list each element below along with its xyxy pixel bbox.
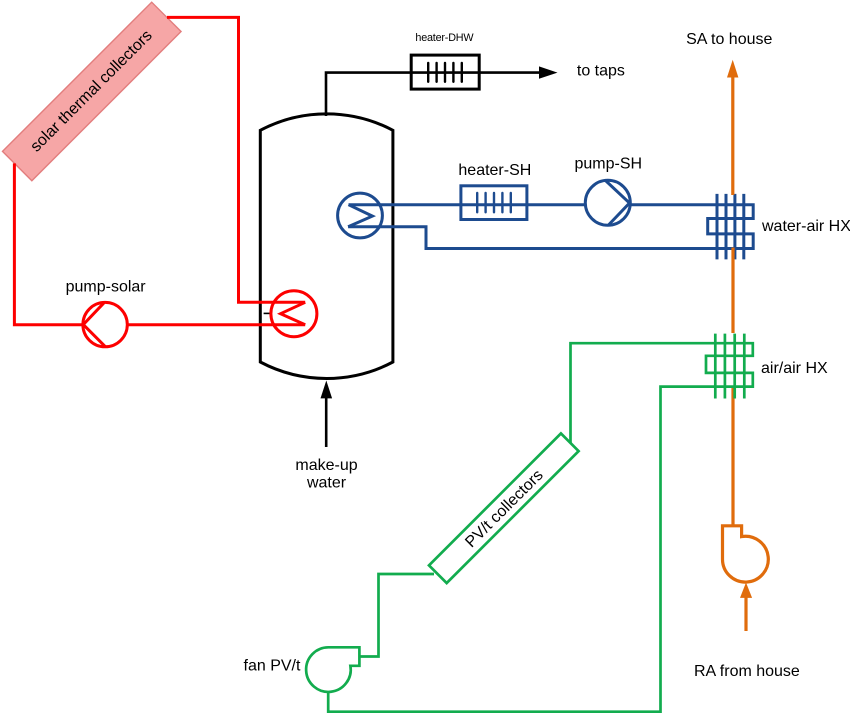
water-air HX ticks — [717, 194, 744, 260]
solar thermal collectors panel — [2, 2, 181, 181]
orange duct between HXs — [731, 248, 734, 334]
wire green fan outlet to collector — [359, 574, 434, 657]
RA arrow — [740, 583, 752, 598]
wire tank top to heater-DHW (black pipe) — [326, 73, 542, 116]
tank T1 (storage vessel) — [260, 114, 393, 379]
wire red return tank HX to pump to collector — [14, 163, 305, 324]
make-up water arrow — [325, 397, 328, 447]
svg-text:RA from house: RA from house — [694, 663, 800, 680]
svg-text:air/air HX: air/air HX — [761, 360, 828, 377]
heat exchanger coil HX-solar in tank — [271, 291, 317, 337]
svg-text:fan PV/t: fan PV/t — [244, 657, 301, 674]
svg-text:pump-SH: pump-SH — [575, 156, 643, 173]
orange duct air/air HX to fan — [731, 387, 734, 526]
svg-text:heater-DHW: heater-DHW — [415, 32, 474, 44]
svg-text:make-up: make-up — [295, 457, 357, 474]
fan RA (orange volute) — [723, 526, 769, 582]
svg-text:to taps: to taps — [577, 63, 625, 80]
svg-text:water: water — [306, 475, 347, 492]
wire green supply collector to air/air HX and return to fan — [328, 343, 753, 712]
PV/t collectors panel — [429, 433, 579, 583]
heater-SH rect — [461, 186, 527, 220]
sensor tick in tank — [264, 312, 271, 314]
wire blue loop supply and return with water-air HX snake — [348, 205, 753, 249]
pump-SH — [585, 180, 630, 225]
svg-text:pump-solar: pump-solar — [66, 279, 147, 296]
orange SA duct arrow — [727, 60, 738, 78]
wire red supply collector to tank HX — [167, 17, 305, 302]
arrowhead to taps — [539, 66, 558, 78]
heater-DHW ticks — [428, 63, 462, 82]
pump-solar — [83, 302, 127, 346]
svg-text:water-air HX: water-air HX — [761, 218, 850, 235]
svg-text:heater-SH: heater-SH — [458, 162, 531, 179]
svg-text:SA to house: SA to house — [686, 31, 772, 48]
fan PV/t (green volute) — [306, 647, 359, 692]
air/air HX ticks (green) — [715, 334, 744, 399]
heater-DHW rect — [411, 55, 479, 89]
heat exchanger coil HX-SH in tank (blue) — [338, 193, 383, 238]
